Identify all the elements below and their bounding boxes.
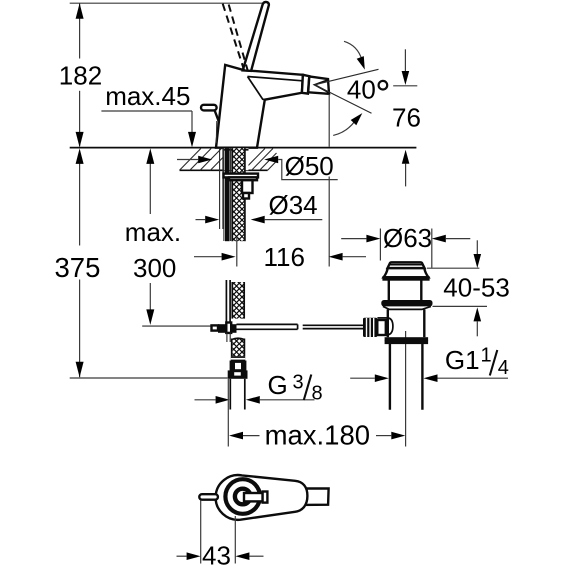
svg-text:Ø50: Ø50: [285, 151, 334, 181]
faucet body: [216, 65, 303, 148]
arrow 182 top: [76, 3, 84, 19]
body crease top: [248, 77, 303, 81]
svg-text:4: 4: [498, 357, 509, 379]
hose hex: [231, 362, 245, 371]
svg-text:40: 40: [347, 75, 376, 105]
svg-text:375: 375: [55, 252, 101, 283]
dimension Ø50: [177, 159, 198, 161]
back hose lines: [219, 148, 221, 229]
svg-text:8: 8: [312, 382, 323, 404]
rod reference line: [142, 325, 214, 327]
deck bottom line: [180, 169, 268, 171]
paddle strut: [214, 110, 218, 121]
waste knurled knob: [363, 318, 377, 337]
svg-text:182: 182: [59, 61, 102, 91]
svg-text:300: 300: [133, 253, 176, 283]
svg-text:40-53: 40-53: [443, 273, 510, 303]
svg-text:G: G: [268, 370, 288, 400]
40 degree lower line: [315, 85, 372, 113]
waste washer: [383, 306, 431, 309]
waste upper body: [388, 279, 390, 300]
svg-text:G1: G1: [445, 345, 480, 375]
rod clamp at hose: [212, 325, 219, 330]
waste plug cap: [388, 262, 425, 268]
lever solid: [243, 2, 269, 71]
hose end reference line: [70, 377, 228, 379]
40 degree lower arc arrow: [333, 121, 355, 135]
waste tailpipe: [389, 343, 391, 410]
40 degree upper line: [315, 69, 379, 85]
spout joint lines: [302, 75, 309, 94]
horizontal rod segment B: [303, 324, 363, 326]
arrow max.300 top: [146, 148, 154, 164]
waste knob collar: [377, 320, 386, 335]
pull rod (black bar below deck): [225, 148, 230, 241]
svg-text:76: 76: [392, 103, 421, 133]
body crease diagonal: [248, 77, 265, 100]
dimension 43: [200, 501, 202, 564]
svg-text:1: 1: [481, 345, 492, 367]
deck hatch left: [180, 149, 223, 171]
top view: outer ring: [225, 479, 260, 514]
hose ferrule: [231, 356, 245, 362]
dimension 76 top tick: [393, 85, 417, 87]
76 lower arrow: [405, 164, 407, 187]
G3/8 nut: [228, 370, 248, 378]
lever dashed position: [223, 4, 248, 70]
arrow 182 bottom: [76, 132, 84, 148]
top view: spout tip: [303, 488, 329, 505]
shank top line: [224, 149, 249, 151]
svg-text:43: 43: [202, 541, 231, 568]
waste dome neck: [384, 268, 429, 277]
76 upper arrow: [404, 49, 406, 71]
dimension 182 vertical line: [79, 3, 81, 58]
spout tip piece: [308, 76, 329, 93]
arrow max.45 down: [188, 132, 196, 148]
spout aerator V: [315, 80, 329, 93]
hose tail pipe: [229, 379, 231, 410]
dimension 116: [236, 237, 238, 267]
deck hatch right: [244, 149, 277, 171]
dimension 40-53: [427, 267, 480, 269]
waste bottom rings: [386, 338, 427, 340]
dimension G3/8: [195, 399, 216, 401]
top view: body outline: [216, 475, 308, 520]
dimension max.300 vertical line: [149, 162, 151, 214]
arrow 375 bottom: [76, 362, 84, 378]
svg-text:Ø63: Ø63: [383, 223, 432, 253]
shank white background: [224, 148, 249, 170]
braided hose segment 1: [233, 148, 244, 241]
dimension max.180: [227, 379, 229, 447]
braided hose segment 3: [233, 339, 244, 357]
dimension G1 1/4: [350, 377, 375, 379]
hose nipple block: [242, 180, 253, 193]
waste body: [387, 309, 389, 337]
top reference line (lever tip level): [70, 2, 267, 4]
arrow 375 top: [76, 148, 84, 164]
horizontal rod segment A: [237, 323, 298, 325]
svg-text:116: 116: [264, 242, 305, 272]
deck top line: [70, 147, 417, 149]
top view: left nub: [199, 494, 218, 500]
svg-text:Ø34: Ø34: [269, 190, 318, 220]
arrow max.300 bottom: [146, 309, 154, 325]
waste port arc: [388, 318, 393, 335]
rod stub below clamp: [226, 333, 228, 343]
waste O-ring: [381, 300, 432, 306]
40 degree upper arc arrow: [344, 41, 362, 59]
svg-text:max.180: max.180: [265, 420, 370, 451]
waste flange: [384, 277, 429, 279]
dimension Ø34: [196, 219, 206, 221]
svg-text:max.45: max.45: [105, 81, 190, 111]
svg-text:max.: max.: [125, 217, 181, 247]
top view: inner ring: [235, 489, 251, 505]
mounting nut below deck: [224, 174, 259, 178]
popup waste: Ø63 dimension: [379, 229, 381, 261]
left paddle: [201, 105, 217, 111]
paddle stem line: [215, 121, 218, 143]
dimension 375 vertical line: [79, 162, 81, 245]
waste port lines: [377, 317, 388, 319]
top view: joystick rod: [244, 493, 263, 501]
braided hose segment 2: [225, 280, 227, 324]
svg-text:3: 3: [293, 372, 304, 394]
